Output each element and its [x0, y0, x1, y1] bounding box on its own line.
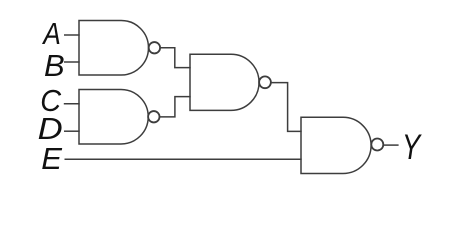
svg-text:B: B	[44, 48, 65, 83]
wire B input stub	[64, 61, 80, 63]
wire U1 output to U3 top input	[160, 48, 191, 68]
wire U2 output to U3 bottom input	[159, 97, 190, 117]
nand gate U4 body	[301, 117, 371, 173]
wire D input stub	[64, 130, 80, 132]
nand gate U3 body	[190, 54, 259, 110]
wire U4 output to Y	[383, 144, 398, 146]
svg-text:A: A	[41, 17, 60, 51]
wire U3 output to U4 top input	[271, 83, 302, 132]
wire E input	[65, 158, 302, 160]
wire C input stub	[64, 103, 80, 105]
wire A input stub	[64, 34, 80, 36]
nand gate U1 bubble	[149, 42, 160, 53]
nand gate U2 bubble	[148, 111, 159, 122]
nand gate U3 bubble	[259, 76, 271, 88]
nand gate U4 bubble	[371, 139, 383, 151]
svg-text:Y: Y	[402, 128, 422, 167]
nand gate U1 body	[79, 21, 148, 76]
svg-text:E: E	[41, 141, 62, 176]
nand gate U2 body	[79, 90, 148, 145]
